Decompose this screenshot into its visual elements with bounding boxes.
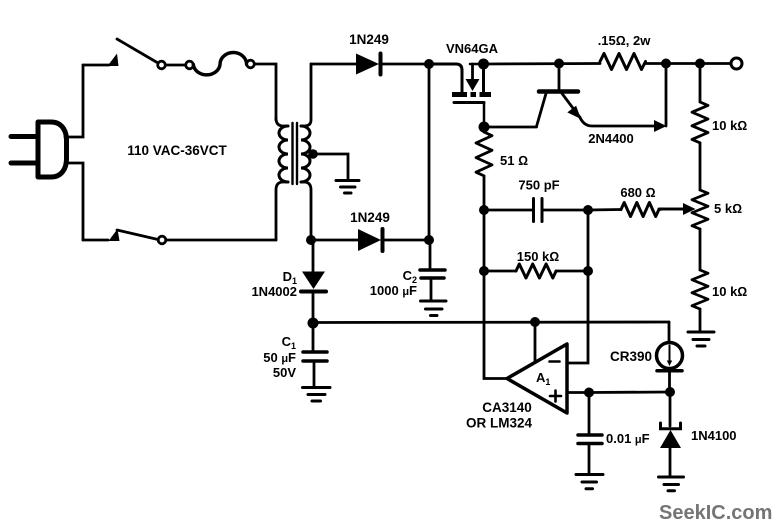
resistor R1 .15 ohm <box>600 54 646 70</box>
AC plug P1 <box>11 122 67 177</box>
wire diode to node <box>384 239 429 242</box>
ground (C4) <box>576 475 603 489</box>
wire 150k to node <box>556 270 588 273</box>
wire between switch and fuse <box>166 64 186 67</box>
svg-text:150 kΩ: 150 kΩ <box>517 249 560 264</box>
svg-text:OR LM324: OR LM324 <box>466 416 533 431</box>
node top of divider <box>695 59 705 69</box>
diode 1N249 (top) <box>356 54 381 75</box>
capacitor C4 0.01uF <box>578 393 602 474</box>
capacitor C1 <box>303 323 327 387</box>
node secondary bottom <box>306 235 316 245</box>
diode 1N249 (bottom) <box>358 229 383 251</box>
svg-text:1N249: 1N249 <box>350 210 390 225</box>
node plus input <box>584 388 594 398</box>
wire 51 ohm to node <box>483 176 486 210</box>
svg-text:1000 μF: 1000 μF <box>370 283 417 298</box>
svg-text:5 kΩ: 5 kΩ <box>714 201 742 216</box>
svg-text:1N4002: 1N4002 <box>251 284 297 299</box>
svg-text:CA3140: CA3140 <box>482 400 532 415</box>
fuse F1 <box>186 53 255 75</box>
node left 750pF row <box>479 205 489 215</box>
node collector Q1 <box>554 59 564 69</box>
wire plug top lead <box>65 65 83 137</box>
resistor R4 10k <box>692 270 708 309</box>
wire 680 to wiper <box>659 208 683 211</box>
svg-text:110 VAC-36VCT: 110 VAC-36VCT <box>127 143 227 158</box>
svg-text:.15Ω, 2w: .15Ω, 2w <box>598 33 652 48</box>
resistor R2 10k <box>692 102 708 143</box>
capacitor C3 750 pF <box>534 199 543 222</box>
svg-text:1N4100: 1N4100 <box>691 428 737 443</box>
wire opamp output <box>484 271 507 379</box>
switch S1b (bottom) <box>83 229 166 244</box>
ground (C1) <box>303 388 331 402</box>
svg-text:10 kΩ: 10 kΩ <box>712 284 747 299</box>
wire rail mosfet to resistor <box>484 62 601 65</box>
terminal output <box>731 58 742 69</box>
svg-text:0.01 μF: 0.01 μF <box>606 431 650 446</box>
svg-text:VN64GA: VN64GA <box>446 41 499 56</box>
wire resistor to node <box>645 62 666 65</box>
node center tap <box>308 149 318 159</box>
wire node to cap <box>484 209 532 212</box>
node opamp supply <box>530 317 540 327</box>
node negative rail left <box>308 318 319 329</box>
label C1 50uF 50V <box>263 334 296 380</box>
svg-text:680 Ω: 680 Ω <box>620 185 655 200</box>
resistor R6 680 ohm <box>621 203 662 217</box>
wire 484 vertical 210-271 <box>483 210 486 271</box>
wire fuse to transformer primary <box>255 64 277 120</box>
svg-text:SeekIC.com: SeekIC.com <box>659 502 772 524</box>
node CR390 bottom <box>665 387 675 397</box>
svg-text:50V: 50V <box>273 365 296 380</box>
switch S1a (top) <box>83 39 165 69</box>
ground (zener) <box>659 477 684 491</box>
wire pot to 10k <box>699 229 702 270</box>
wire secondary top to diode <box>311 63 356 66</box>
wire cap to node <box>543 209 588 212</box>
ground (center tap) <box>336 181 359 194</box>
label D1 1N4002 <box>251 269 297 299</box>
wire rail to output <box>666 62 730 65</box>
node rail right of R1 <box>661 59 671 69</box>
resistor R7 150k <box>516 264 556 278</box>
wire switch to transformer <box>166 239 276 242</box>
wire plug bottom lead <box>65 163 83 240</box>
node mosfet gate <box>479 122 490 133</box>
wire minus input vertical <box>567 210 588 363</box>
svg-text:750 pF: 750 pF <box>518 178 559 193</box>
wire 10k to ground <box>699 309 702 331</box>
wire node to diode <box>311 239 358 242</box>
wire divider vertical top <box>699 64 702 103</box>
node rectifier top <box>424 59 434 69</box>
wire negative rail <box>313 321 669 324</box>
wire diode to node <box>382 63 428 66</box>
svg-text:CR390: CR390 <box>610 349 652 364</box>
ground (C2) <box>421 301 447 316</box>
node rectifier bottom <box>424 235 434 245</box>
svg-text:50 μF: 50 μF <box>263 350 296 365</box>
wire node to 680 <box>588 208 621 211</box>
wire gate to base <box>484 126 537 129</box>
svg-text:10 kΩ: 10 kΩ <box>712 118 747 133</box>
svg-text:C1: C1 <box>282 334 296 351</box>
node mosfet source on rail <box>478 59 489 70</box>
svg-text:51 Ω: 51 Ω <box>500 153 528 168</box>
resistor R5 51 ohm <box>476 132 492 176</box>
svg-text:1N249: 1N249 <box>349 32 389 47</box>
wire supply stub <box>534 322 537 362</box>
op-amp A1 <box>507 344 567 413</box>
diode D1 1N4002 <box>301 240 326 323</box>
label CA3140 OR LM324 <box>466 400 533 431</box>
transistor Q1 2N4400 <box>537 64 667 133</box>
current regulator CR390 <box>657 322 683 392</box>
wire center tap <box>313 154 348 179</box>
ground (divider) <box>688 332 714 346</box>
transformer T1 <box>276 64 311 240</box>
label C2 1000uF <box>370 268 417 298</box>
potentiometer R3 5k <box>659 190 708 229</box>
node right 150k <box>583 266 593 276</box>
wire node to 150k <box>484 270 516 273</box>
node right 750pF row <box>583 205 593 215</box>
svg-text:2N4400: 2N4400 <box>588 131 634 146</box>
wire plus row <box>589 391 670 394</box>
wire rectifier vertical <box>428 64 431 240</box>
wire plus input <box>567 391 589 394</box>
wire gate node to 51 ohm <box>483 127 486 132</box>
node left 150k <box>479 266 489 276</box>
wire 10k to pot <box>699 143 702 190</box>
capacitor C2 <box>420 240 445 300</box>
zener D2 1N4100 <box>660 392 681 476</box>
mosfet VN64GA <box>429 64 491 127</box>
